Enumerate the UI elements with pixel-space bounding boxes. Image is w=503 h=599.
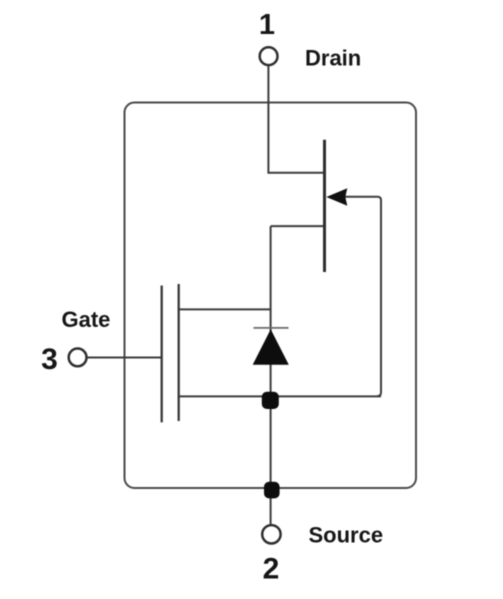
svg-text:1: 1: [259, 9, 275, 41]
svg-text:2: 2: [263, 553, 280, 586]
svg-text:Source: Source: [309, 523, 384, 548]
svg-text:Drain: Drain: [305, 46, 361, 71]
svg-text:3: 3: [41, 343, 58, 376]
svg-text:Gate: Gate: [62, 307, 111, 332]
